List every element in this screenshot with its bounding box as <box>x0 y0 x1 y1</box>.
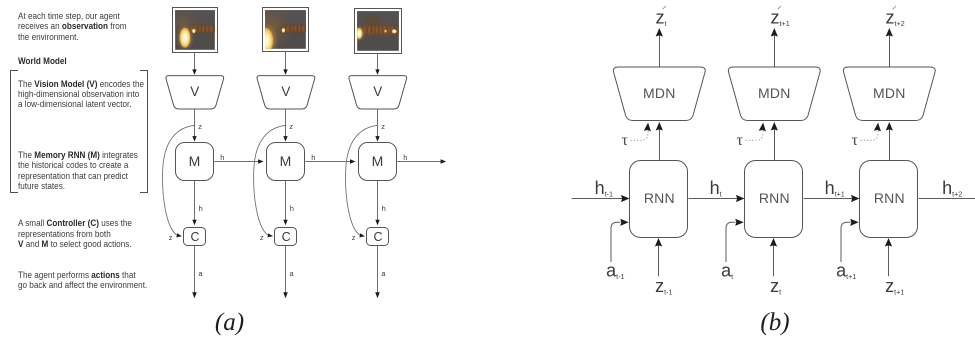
svg-text:ht+2: ht+2 <box>942 178 962 198</box>
wire MDN to z output col3 <box>889 33 891 68</box>
wire obs to V col2 <box>285 52 287 74</box>
wire a into RNN col1 <box>611 222 621 262</box>
V block col2 <box>257 76 315 109</box>
wire z into RNN col1 <box>658 243 660 276</box>
wire tau to MDN (dotted) col2 <box>746 131 764 141</box>
svg-text:zt+1: zt+1 <box>771 7 790 28</box>
svg-text:τ: τ <box>852 132 859 149</box>
observation image frame t2 <box>263 8 309 52</box>
hat mark col1 <box>663 6 666 9</box>
wire h out of last RNN <box>919 198 975 200</box>
C block col1 <box>184 228 206 246</box>
svg-text:V: V <box>190 84 199 99</box>
svg-text:z: z <box>198 122 202 131</box>
svg-text:at+1: at+1 <box>836 261 856 281</box>
C block col3 <box>367 228 389 246</box>
C block col2 <box>275 228 297 246</box>
svg-text:h: h <box>382 204 386 213</box>
svg-text:zt: zt <box>770 276 781 296</box>
svg-text:a: a <box>381 269 386 278</box>
MDN block col1 <box>613 67 705 121</box>
wire h: M to C col3 <box>377 181 379 221</box>
wire RNN to MDN col3 <box>889 127 891 161</box>
wire RNN to MDN col1 <box>659 127 661 161</box>
wire z to C curve col2 <box>254 125 287 235</box>
svg-text:C: C <box>282 230 291 244</box>
svg-text:RNN: RNN <box>874 190 905 206</box>
wire a: C down col3 <box>377 246 379 296</box>
svg-text:V: V <box>281 84 290 99</box>
RNN block col2 <box>745 161 803 238</box>
V block col3 <box>349 76 407 109</box>
svg-text:C: C <box>373 230 382 244</box>
wire h into RNN col2 <box>689 198 741 200</box>
wire h: M to next col2 <box>305 161 350 163</box>
wire MDN to z output col2 <box>774 33 776 68</box>
svg-text:z: z <box>169 233 173 242</box>
svg-text:zt-1: zt-1 <box>655 276 672 296</box>
svg-text:z: z <box>381 122 385 131</box>
svg-text:h: h <box>290 204 294 213</box>
wire tau to MDN (dotted) col3 <box>861 131 879 141</box>
wire h into RNN col3 <box>804 198 856 200</box>
svg-text:z: z <box>289 122 293 131</box>
paragraph: memory rnn <box>18 150 138 191</box>
wire z into RNN col2 <box>773 243 775 276</box>
wire z: V to M col2 <box>285 109 287 138</box>
svg-text:zt+2: zt+2 <box>886 7 905 28</box>
wire h into RNN col1 <box>572 198 626 200</box>
svg-text:z: z <box>352 233 356 242</box>
wire MDN to z output col1 <box>659 33 661 68</box>
wire a: C down col1 <box>194 246 196 296</box>
V block col1 <box>166 76 224 109</box>
wire obs to V col3 <box>377 54 379 74</box>
svg-text:at-1: at-1 <box>606 261 624 281</box>
svg-text:(a): (a) <box>215 309 244 336</box>
MDN block col3 <box>843 67 935 121</box>
svg-text:MDN: MDN <box>873 85 905 101</box>
wire z to C curve col1 <box>163 125 196 235</box>
wire h: M to C col2 <box>285 181 287 221</box>
wire tau to MDN (dotted) col1 <box>631 131 649 141</box>
svg-text:(b): (b) <box>760 309 789 336</box>
svg-text:h: h <box>403 153 407 162</box>
wire z: V to M col1 <box>194 109 196 138</box>
svg-text:C: C <box>190 230 199 244</box>
heading World Model <box>18 56 67 66</box>
hat mark col3 <box>893 6 896 9</box>
svg-text:V: V <box>373 84 382 99</box>
bracket right <box>140 70 148 193</box>
svg-text:at: at <box>721 261 733 281</box>
svg-text:ht-1: ht-1 <box>595 178 613 198</box>
svg-text:h: h <box>199 204 203 213</box>
paragraph: actions <box>18 270 147 291</box>
wire h: M to next col1 <box>214 161 259 163</box>
RNN block col1 <box>630 161 688 238</box>
paragraph: controller <box>18 218 132 249</box>
svg-text:MDN: MDN <box>643 85 675 101</box>
MDN block col2 <box>728 67 820 121</box>
svg-text:h: h <box>220 153 224 162</box>
wire RNN to MDN col2 <box>774 127 776 161</box>
RNN block col3 <box>860 161 918 238</box>
svg-text:RNN: RNN <box>759 190 790 206</box>
svg-text:a: a <box>198 269 203 278</box>
svg-text:zt+1: zt+1 <box>885 276 904 296</box>
svg-text:ht+1: ht+1 <box>825 178 845 198</box>
hat mark col2 <box>778 6 781 9</box>
svg-text:τ: τ <box>737 132 744 149</box>
svg-text:h: h <box>311 153 315 162</box>
wire h: M to next col3 <box>397 161 442 163</box>
wire a into RNN col3 <box>841 222 851 262</box>
paragraph: observation <box>18 11 127 42</box>
svg-text:zt: zt <box>656 7 667 28</box>
svg-text:z: z <box>260 233 264 242</box>
wire obs to V col1 <box>194 53 196 74</box>
wire z into RNN col3 <box>888 243 890 276</box>
M block col2 <box>267 143 305 181</box>
svg-text:a: a <box>290 269 295 278</box>
bracket left <box>10 70 18 193</box>
svg-text:M: M <box>189 153 201 169</box>
wire a into RNN col2 <box>726 222 736 262</box>
svg-text:ht: ht <box>710 178 722 198</box>
M block col1 <box>176 143 214 181</box>
wire h: M to C col1 <box>194 181 196 221</box>
observation image frame t1 <box>173 8 218 53</box>
svg-text:MDN: MDN <box>758 85 790 101</box>
svg-text:M: M <box>372 153 384 169</box>
wire a: C down col2 <box>285 246 287 296</box>
wire z to C curve col3 <box>346 125 379 235</box>
wire z: V to M col3 <box>377 109 379 138</box>
svg-text:RNN: RNN <box>644 190 675 206</box>
svg-text:τ: τ <box>622 132 629 149</box>
paragraph: vision model <box>18 79 144 110</box>
svg-text:M: M <box>280 153 292 169</box>
M block col3 <box>359 143 397 181</box>
observation image frame t3 <box>355 9 402 54</box>
